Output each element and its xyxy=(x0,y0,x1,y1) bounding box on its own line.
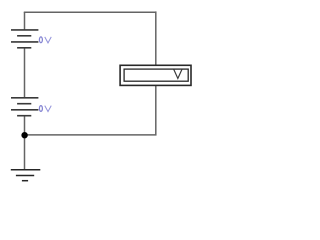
battery B2 plate 3 (long) xyxy=(11,109,38,111)
wire bottom horizontal xyxy=(25,134,157,136)
ground bar 3 xyxy=(22,180,28,182)
battery B2 plate 2 (short) xyxy=(17,103,31,105)
battery B1 value label 0 V xyxy=(39,37,51,43)
battery B1 plate 1 (long) xyxy=(11,29,38,31)
wire right vertical upper (to voltmeter) xyxy=(155,11,157,65)
wire top horizontal xyxy=(24,11,157,13)
battery B1 plate 2 (short) xyxy=(17,35,31,37)
battery B2 value label 0 V xyxy=(39,106,51,112)
battery B2 plate 4 (short) xyxy=(17,115,31,117)
junction node xyxy=(21,132,27,138)
battery B1 plate 3 (long) xyxy=(11,41,38,43)
wire from battery B2 down through junction to ground xyxy=(24,116,26,170)
voltmeter M1 unit letter V xyxy=(174,69,182,78)
voltmeter M1 inner display xyxy=(124,69,188,81)
wire right vertical lower (from voltmeter) xyxy=(155,86,157,136)
ground bar 2 xyxy=(16,175,34,177)
battery B2 plate 1 (long) xyxy=(11,97,38,99)
battery B1 plate 4 (short) xyxy=(17,47,31,49)
wire between battery B1 and battery B2 xyxy=(24,48,26,98)
ground bar 1 xyxy=(11,169,41,171)
wire top-left lead from battery B1 up xyxy=(24,12,26,30)
voltmeter M1 outer case xyxy=(120,65,191,85)
